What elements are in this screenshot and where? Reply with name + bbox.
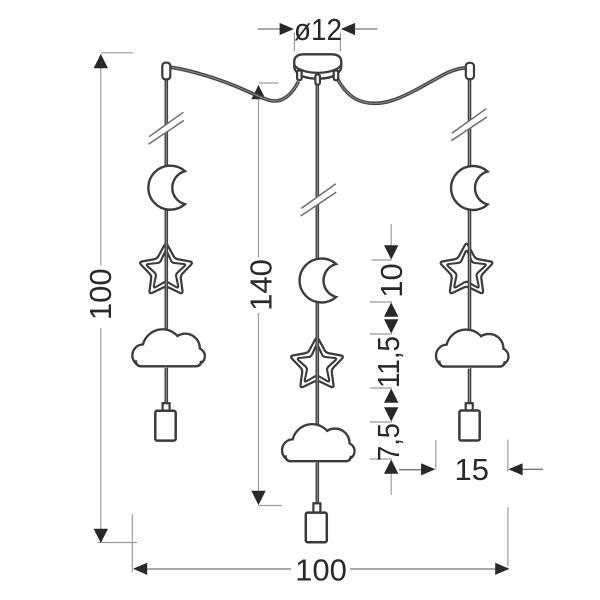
left star (140, 244, 192, 293)
right stacked dimension arrows (384, 245, 398, 474)
left drop cord (165, 79, 169, 404)
left connector (162, 63, 170, 80)
center star (291, 338, 343, 387)
right connector (466, 63, 474, 79)
svg-text:7,5: 7,5 (371, 423, 406, 461)
svg-text:ø12: ø12 (294, 12, 342, 47)
left socket body (155, 411, 175, 441)
canopy body (294, 54, 341, 78)
dimension 15 arrows (421, 463, 522, 475)
svg-text:140: 140 (244, 259, 279, 311)
left dimension 100 arrows (94, 54, 108, 543)
dimension 140 line (259, 83, 283, 506)
center cloud (283, 425, 353, 463)
right drop cord (468, 79, 472, 404)
left swag cord (171, 67, 299, 101)
dimension diameter 12 arrows (280, 23, 356, 35)
center socket body (306, 513, 327, 543)
svg-text:15: 15 (455, 452, 489, 487)
svg-text:10: 10 (374, 263, 409, 297)
right socket neck (466, 403, 473, 411)
left cord break (148, 112, 184, 144)
canopy right grip (334, 70, 339, 80)
canopy center grip (315, 74, 320, 84)
right swag cord (337, 68, 466, 104)
center socket neck (313, 503, 320, 513)
dimension 140 arrows (251, 85, 265, 505)
right moon (451, 166, 488, 210)
left socket neck (163, 403, 170, 412)
bottom dimension 100 arrows (133, 563, 509, 575)
left cloud (134, 330, 204, 368)
svg-text:100: 100 (295, 553, 347, 588)
left dimension 100 line (98, 53, 138, 543)
center cord break (301, 184, 337, 216)
right star (441, 244, 493, 293)
bottom dimension 100 lines (131, 514, 133, 573)
svg-text:100: 100 (83, 268, 118, 320)
dimension diameter 12 lines (0, 0, 1, 1)
svg-text:11,5: 11,5 (371, 336, 406, 388)
center drop cord (315, 84, 319, 503)
right cord break (451, 109, 487, 141)
right stacked dimension lines (370, 224, 392, 495)
left moon (148, 166, 185, 210)
canopy cap lower edge arc (294, 63, 341, 73)
dimension 15 lines (436, 440, 508, 567)
right socket body (459, 411, 479, 441)
center moon (300, 259, 337, 303)
canopy left grip (297, 70, 302, 80)
right cloud (437, 331, 507, 369)
